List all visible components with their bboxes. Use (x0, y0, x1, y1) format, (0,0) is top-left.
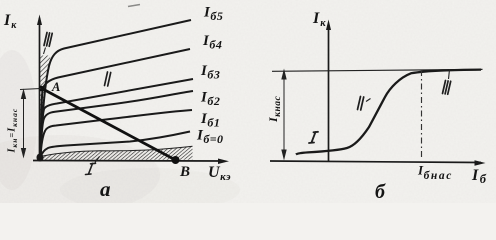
x-axis arrowhead (475, 160, 486, 165)
label I (region, drawn stroke with serifs) (309, 132, 318, 143)
curve Ib4 (41, 49, 191, 157)
leader for II (366, 99, 371, 102)
x-axis arrowhead (218, 159, 229, 165)
origin ink blob (37, 154, 44, 162)
curve Ib5 (41, 20, 192, 157)
region I strip top edge (43, 146, 193, 156)
faint scan shading lower-left (0, 135, 160, 215)
region III hatched wedge (saturation) (40, 56, 51, 157)
y-axis (39, 18, 41, 161)
dash-dot vertical line (421, 70, 423, 160)
label II (region, drawn strokes) (105, 72, 111, 86)
label II (region, drawn strokes) (358, 97, 364, 111)
dimension tick at A level (20, 89, 41, 90)
label III (region, drawn strokes) (44, 33, 52, 47)
svg-text:б: б (375, 181, 386, 203)
svg-text:а: а (100, 177, 111, 201)
leader for III (449, 70, 450, 80)
saturation level line (272, 69, 483, 71)
svg-text:В: В (179, 164, 190, 180)
x-axis (33, 160, 224, 163)
region I hatched strip (cutoff) (41, 146, 193, 159)
y-axis arrowhead (326, 20, 331, 31)
dimension double arrow (Iknas) (283, 74, 285, 156)
transfer curve (296, 70, 481, 155)
label I (region, drawn stroke with serifs) (86, 163, 96, 174)
svg-text:A: A (51, 80, 60, 94)
curve Ib3 (41, 79, 194, 157)
leader for III (44, 48, 46, 55)
curve Ib1 (41, 110, 193, 157)
point B dot (172, 156, 180, 164)
dimension double arrow (Ikn) (23, 92, 25, 155)
label III (region, drawn strokes) (443, 81, 451, 95)
curve Ib2 (41, 91, 194, 157)
stray scan speck (128, 5, 140, 7)
leader for I (95, 157, 100, 163)
curve Ib0 (41, 132, 191, 158)
x-axis (270, 161, 481, 163)
point A dot (39, 86, 45, 92)
load line A-B (41, 88, 176, 160)
y-axis arrowhead (37, 15, 42, 26)
y-axis (328, 24, 330, 161)
